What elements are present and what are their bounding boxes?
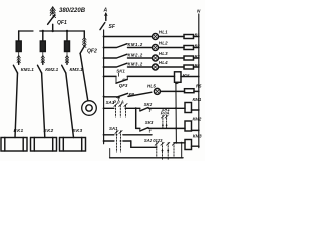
svg-text:КМ2: КМ2 bbox=[193, 117, 202, 122]
bus 380V bbox=[19, 30, 85, 32]
node split bbox=[135, 107, 137, 109]
svg-text:КМ1.1: КМ1.1 bbox=[21, 67, 34, 72]
svg-text:R5: R5 bbox=[196, 83, 202, 88]
contact SK1/QF3 t bbox=[115, 76, 117, 83]
svg-text:QF2: QF2 bbox=[87, 49, 97, 55]
left control rail bbox=[103, 30, 105, 144]
rung KV contact / HL5 bbox=[104, 96, 117, 98]
resistor R2 bbox=[184, 46, 194, 50]
svg-text:КМ2.1: КМ2.1 bbox=[45, 67, 58, 72]
SA1 dashed linkage bbox=[116, 105, 126, 117]
svg-text:QF1: QF1 bbox=[57, 20, 67, 26]
switch SA1 section 1 bbox=[106, 99, 124, 105]
resistor R1 bbox=[184, 35, 194, 39]
node bus-QF1 bbox=[52, 30, 54, 32]
wire down to SK3 rung bbox=[135, 108, 137, 128]
svg-text:КМ1: КМ1 bbox=[193, 97, 202, 102]
wire to EK2 bbox=[42, 73, 45, 138]
lamp HL4 bbox=[153, 64, 159, 70]
three-phase arrow symbol bbox=[50, 7, 55, 16]
rung 3: contact KM2.2 bbox=[104, 57, 116, 59]
wire rail to SA1 bbox=[104, 107, 114, 109]
coil KM2 bbox=[185, 121, 192, 131]
fuse FU2 bbox=[40, 41, 45, 52]
bottom tie wire bbox=[110, 157, 183, 159]
wire QF1 to bus bbox=[52, 24, 54, 31]
label 380/220V bbox=[59, 8, 86, 14]
breaker QF2 bbox=[80, 46, 85, 54]
riser left bbox=[109, 149, 111, 158]
wire to EK1 bbox=[15, 73, 18, 138]
contact SK2 bbox=[144, 102, 153, 107]
lamp HL1 bbox=[153, 34, 159, 40]
svg-text:HL5: HL5 bbox=[147, 83, 156, 88]
node SA1 out bbox=[125, 107, 127, 109]
switch SF bbox=[100, 23, 105, 30]
riser right bbox=[181, 143, 183, 158]
contact KM2.1 bbox=[42, 61, 44, 64]
svg-text:SK2: SK2 bbox=[144, 102, 153, 107]
svg-text:KV: KV bbox=[183, 73, 190, 78]
wire branch2 drop bbox=[42, 31, 44, 41]
wire QF2 to motor bbox=[80, 54, 88, 101]
heater EK1 bbox=[1, 138, 27, 152]
wire branch3 drop bbox=[66, 31, 68, 41]
svg-text:HL4: HL4 bbox=[159, 60, 168, 65]
node bus-branch2 bbox=[42, 30, 44, 32]
switch SA1 section 3 bbox=[161, 107, 171, 116]
rung SK1/QF3 bbox=[104, 75, 116, 77]
svg-text:HL2: HL2 bbox=[159, 41, 168, 46]
wire to HL5 bbox=[128, 92, 152, 96]
lamp HL5 bbox=[154, 88, 160, 94]
svg-text:КМ3: КМ3 bbox=[193, 134, 202, 139]
SA2 contact crosses bbox=[155, 142, 175, 145]
motor M bbox=[82, 101, 97, 116]
switch SA2 bbox=[144, 138, 163, 143]
svg-text:КМ2.2: КМ2.2 bbox=[128, 52, 143, 57]
arc marks branch1 bbox=[17, 52, 20, 63]
svg-text:ЕК1: ЕК1 bbox=[14, 128, 24, 134]
arc marks QF2 bbox=[83, 37, 87, 45]
right control rail N bbox=[198, 14, 200, 148]
SA1 contact crosses bbox=[114, 104, 127, 107]
svg-text:КМ3.1: КМ3.1 bbox=[70, 67, 83, 72]
wire SA2 to KM3 bbox=[174, 142, 185, 144]
heater EK3 bbox=[60, 138, 86, 152]
fuse FU3 bbox=[65, 41, 70, 52]
lamp HL3 bbox=[153, 55, 159, 61]
svg-text:HL3: HL3 bbox=[159, 51, 168, 56]
svg-text:SK3: SK3 bbox=[145, 120, 154, 125]
switch SA1 section 2 bbox=[109, 126, 118, 131]
resistor R4 bbox=[184, 65, 194, 69]
fuse FU1 bbox=[16, 41, 21, 52]
coil KM3 bbox=[185, 140, 192, 150]
resistor R5 bbox=[185, 89, 195, 93]
svg-text:ЕК3: ЕК3 bbox=[73, 128, 83, 134]
resistor R3 bbox=[184, 56, 194, 60]
wire branch1 drop bbox=[18, 31, 20, 41]
svg-text:QF3: QF3 bbox=[119, 83, 128, 88]
contact KM3.1 bbox=[66, 61, 68, 64]
breaker QF1 bbox=[48, 15, 56, 24]
arc marks branch2 bbox=[41, 52, 44, 63]
svg-text:Р.0А: Р.0А bbox=[161, 111, 170, 116]
rung 4: contact KM3.2 bbox=[104, 66, 116, 68]
coil feed bus bbox=[175, 83, 178, 143]
svg-text:SK1: SK1 bbox=[116, 68, 125, 73]
rung 1 wire bbox=[104, 36, 153, 38]
contact KV aux bbox=[117, 93, 128, 97]
relay coil KV bbox=[175, 72, 182, 83]
svg-text:SF: SF bbox=[109, 24, 116, 30]
position arrow bbox=[118, 97, 120, 101]
contact KM1.1 bbox=[18, 61, 20, 64]
node A feed bbox=[103, 8, 108, 14]
rail junction dots bbox=[103, 36, 105, 38]
rung 2: contact KM1.2 bbox=[104, 47, 116, 49]
heater EK2 bbox=[31, 138, 57, 152]
wires SA1 out bbox=[123, 134, 152, 136]
arc marks branch3 bbox=[65, 52, 68, 63]
contact SK3 bbox=[145, 120, 154, 125]
svg-text:КМ3.2: КМ3.2 bbox=[128, 61, 143, 66]
lamp HL2 bbox=[153, 45, 159, 51]
svg-text:КМ1.2: КМ1.2 bbox=[128, 42, 143, 47]
coil KM1 bbox=[185, 103, 192, 113]
svg-text:ЕК2: ЕК2 bbox=[44, 128, 54, 134]
svg-text:HL1: HL1 bbox=[159, 30, 168, 35]
svg-text:А: А bbox=[103, 8, 108, 14]
tick bbox=[118, 73, 120, 76]
wire SA1 to SK2 bbox=[126, 107, 140, 109]
QF2 branch from bus bbox=[83, 31, 85, 37]
wire to EK3 bbox=[66, 73, 74, 138]
svg-text:t°: t° bbox=[122, 77, 125, 82]
svg-text:SA2 0123: SA2 0123 bbox=[144, 138, 163, 143]
wire KV coil bottom to bus bbox=[176, 82, 178, 83]
node bus-branch3 bbox=[66, 30, 68, 32]
arrow at A bbox=[105, 14, 107, 21]
svg-text:380/220В: 380/220В bbox=[59, 8, 86, 14]
